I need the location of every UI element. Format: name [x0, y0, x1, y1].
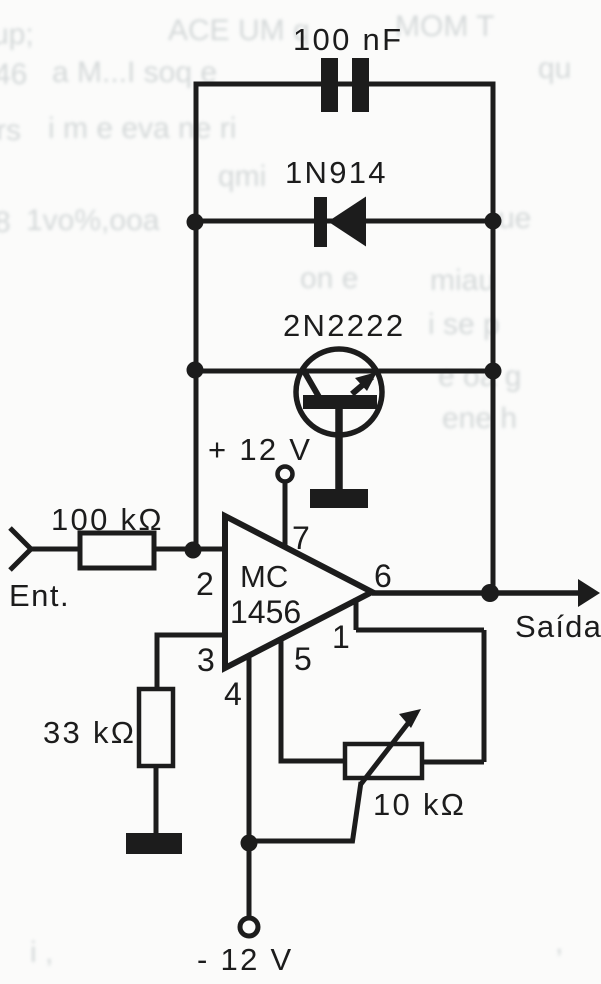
- junction: input node / left rail: [185, 542, 202, 559]
- input terminal Ent.: [10, 528, 80, 570]
- svg-text:100 kΩ: 100 kΩ: [51, 502, 164, 537]
- power terminal +12 V: [278, 467, 293, 548]
- wire: pin 1 down: [354, 598, 359, 630]
- wire: transistor collector row: [196, 369, 493, 374]
- junction: left rail / diode row: [187, 214, 204, 231]
- svg-text:Saída: Saída: [515, 609, 601, 644]
- svg-text:5: 5: [294, 641, 312, 677]
- svg-text:qu: qu: [538, 52, 571, 85]
- wire: pin 3 to R2: [157, 635, 228, 689]
- svg-text:MOM T: MOM T: [395, 10, 494, 43]
- svg-text:1: 1: [332, 619, 350, 655]
- svg-text:e oa g: e oa g: [438, 360, 521, 393]
- svg-text:rs: rs: [0, 114, 21, 147]
- op-amp U1 MC1456: [225, 516, 372, 668]
- wire: R2 to ground: [154, 766, 159, 833]
- svg-text:2N2222: 2N2222: [283, 308, 405, 343]
- svg-text:i ,: i ,: [30, 936, 53, 969]
- wire: left rail: [194, 82, 199, 553]
- potentiometer R3 10 kOhm: [345, 709, 422, 784]
- junction: right rail / diode row: [485, 213, 502, 230]
- svg-text:i se p: i se p: [428, 308, 500, 341]
- junction: pin 4 / wiper wire: [241, 835, 258, 852]
- svg-text:1vo%,ooa: 1vo%,ooa: [26, 204, 160, 237]
- power terminal -12 V: [240, 918, 258, 936]
- wire: diode row: [196, 219, 493, 224]
- resistor R1 100 kOhm: [80, 533, 154, 568]
- svg-text:a M...I soq e: a M...I soq e: [52, 56, 217, 89]
- ground (transistor emitter): [310, 489, 368, 508]
- svg-text:ene h: ene h: [442, 402, 517, 435]
- svg-text:1456: 1456: [230, 594, 301, 630]
- junction: right rail / collector row: [485, 363, 502, 380]
- wire: pin 4 down to -12 V: [247, 656, 252, 916]
- svg-text:46: 46: [0, 58, 27, 91]
- wire: right rail: [491, 82, 496, 594]
- diode D1 1N914: [314, 197, 366, 248]
- svg-text:up;: up;: [0, 18, 34, 51]
- svg-text:100 nF: 100 nF: [293, 22, 403, 57]
- svg-text:8: 8: [0, 206, 11, 239]
- svg-text:ACE UM q: ACE UM q: [168, 14, 310, 47]
- svg-text:on e: on e: [300, 262, 358, 295]
- svg-text:6: 6: [374, 558, 392, 594]
- wire: output from pin 6: [372, 590, 580, 596]
- resistor R2 33 kOhm: [139, 689, 173, 766]
- output arrow Saída: [578, 579, 600, 607]
- wire: feedback right vertical: [482, 630, 487, 762]
- svg-text:- 12 V: - 12 V: [197, 942, 294, 977]
- node: top rail wire: [196, 82, 493, 87]
- wire: R1 to op-amp pin 2: [154, 547, 228, 552]
- svg-text:10 kΩ: 10 kΩ: [373, 787, 466, 822]
- transistor Q1 2N2222: [296, 349, 382, 489]
- svg-text:1N914: 1N914: [285, 155, 388, 190]
- wire: pot wiper to -12V node: [249, 782, 361, 841]
- junction: left rail / collector row: [187, 362, 204, 379]
- wire: pin 5 down: [281, 641, 345, 761]
- svg-text:miau: miau: [430, 264, 495, 297]
- svg-text:qmi: qmi: [218, 160, 266, 193]
- capacitor C1 100 nF: [321, 58, 369, 112]
- svg-text:i m e eva ne ri: i m e eva ne ri: [48, 112, 236, 145]
- wire: pot right lead: [422, 760, 484, 765]
- wire: pin 1 horizontal: [356, 628, 484, 633]
- svg-text:ue: ue: [498, 202, 531, 235]
- junction: output / right rail: [481, 584, 499, 602]
- svg-text:+ 12 V: + 12 V: [208, 432, 312, 467]
- svg-text:MC: MC: [240, 559, 288, 594]
- svg-text:Ent.: Ent.: [9, 578, 70, 613]
- svg-text:,: ,: [555, 926, 563, 959]
- svg-text:4: 4: [224, 676, 242, 712]
- svg-text:2: 2: [196, 566, 214, 602]
- svg-text:3: 3: [197, 642, 215, 678]
- ground (R2): [126, 833, 182, 854]
- svg-text:33 kΩ: 33 kΩ: [43, 715, 136, 750]
- svg-text:7: 7: [292, 520, 310, 556]
